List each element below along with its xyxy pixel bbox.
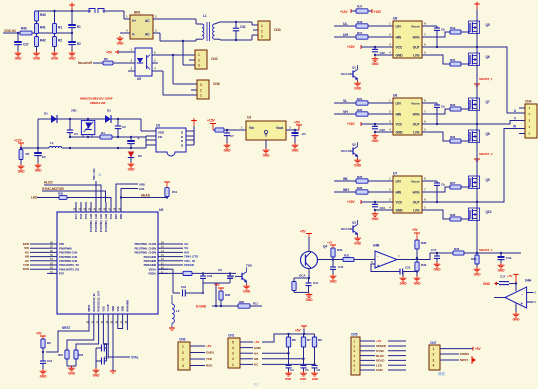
svg-text:U3: U3 bbox=[247, 116, 251, 120]
wire bbox=[334, 191, 356, 193]
svg-text:GND: GND bbox=[254, 346, 261, 350]
wire inputs bbox=[527, 292, 534, 294]
svg-text:CN3: CN3 bbox=[274, 28, 281, 32]
mcu top pins bbox=[75, 202, 77, 212]
power +5V bbox=[472, 347, 474, 351]
svg-text:U5: U5 bbox=[137, 77, 141, 81]
wire bbox=[113, 62, 135, 64]
svg-text:+15V: +15V bbox=[347, 122, 355, 126]
wire bbox=[36, 21, 38, 24]
svg-text:CN5: CN5 bbox=[351, 333, 358, 337]
wire bbox=[42, 348, 44, 361]
svg-text:C7: C7 bbox=[230, 134, 234, 138]
wire bbox=[240, 347, 253, 349]
wire bbox=[360, 340, 375, 342]
wire vertical to CN8 bbox=[172, 55, 174, 84]
wire OUT bbox=[422, 46, 477, 48]
svg-text:PC3/TIM4_CH2: PC3/TIM4_CH2 bbox=[94, 213, 98, 232]
svg-text:E4: E4 bbox=[302, 132, 306, 136]
ground bbox=[288, 371, 290, 373]
capacitor Cb bbox=[436, 103, 438, 105]
capacitor E4 bbox=[294, 130, 296, 132]
svg-text:AC: AC bbox=[145, 19, 150, 23]
svg-text:C17: C17 bbox=[431, 248, 437, 252]
power +15V bbox=[371, 9, 373, 13]
ground bbox=[500, 263, 502, 265]
ground bbox=[17, 51, 19, 53]
svg-text:C4: C4 bbox=[290, 368, 294, 372]
svg-text:GND: GND bbox=[474, 273, 482, 277]
wire bbox=[354, 259, 375, 261]
wire bbox=[67, 198, 111, 203]
svg-text:4: 4 bbox=[182, 364, 184, 368]
wire rail A bbox=[57, 118, 141, 120]
svg-text:+5V: +5V bbox=[36, 332, 42, 336]
svg-text:GND: GND bbox=[69, 57, 77, 61]
svg-text:Q9: Q9 bbox=[486, 178, 490, 182]
capacitor Cb bbox=[436, 26, 438, 28]
resistor R4 bbox=[100, 135, 112, 139]
ground bbox=[357, 158, 359, 160]
svg-text:C11: C11 bbox=[313, 281, 319, 285]
wire VDD bbox=[112, 324, 114, 371]
capacitor E1 bbox=[68, 24, 76, 26]
svg-text:OCA: OCA bbox=[299, 274, 306, 278]
svg-text:OUT: OUT bbox=[413, 200, 420, 204]
svg-text:Vboot: Vboot bbox=[411, 101, 419, 105]
svg-text:R41: R41 bbox=[40, 26, 46, 30]
capacitor C31 bbox=[235, 22, 237, 28]
inductor L2 bbox=[49, 146, 62, 148]
wire bbox=[251, 22, 253, 25]
wire bbox=[334, 113, 356, 115]
svg-text:PC4/TIM4_CH3: PC4/TIM4_CH3 bbox=[89, 213, 93, 232]
wire bbox=[375, 209, 393, 211]
wire bbox=[158, 256, 168, 258]
svg-text:GND: GND bbox=[15, 57, 23, 61]
wire OUT bbox=[422, 201, 477, 203]
wire U3 out bbox=[286, 129, 299, 131]
svg-text:GND: GND bbox=[372, 217, 380, 221]
resistor R1 bbox=[53, 24, 57, 34]
resistor R2 bbox=[53, 37, 57, 47]
wire to U1 VDD bbox=[140, 119, 142, 131]
svg-text:R27: R27 bbox=[450, 181, 456, 185]
ground bbox=[42, 369, 44, 371]
svg-text:HVG: HVG bbox=[413, 112, 420, 116]
wire gnd stem bbox=[515, 303, 517, 312]
svg-text:+5V: +5V bbox=[412, 228, 418, 232]
svg-text:VH: VH bbox=[343, 110, 348, 114]
wire phase U bbox=[477, 47, 525, 113]
capacitor C5 bbox=[301, 365, 307, 367]
svg-text:Vboot: Vboot bbox=[411, 179, 419, 183]
wire bbox=[515, 284, 517, 292]
mosfet Q8 bbox=[469, 130, 480, 143]
wire bbox=[240, 341, 253, 343]
wire bbox=[121, 197, 167, 199]
capacitor E3 bbox=[37, 148, 39, 152]
wire bbox=[461, 108, 470, 110]
ground bbox=[374, 57, 376, 59]
svg-text:+5V: +5V bbox=[294, 120, 301, 124]
capacitor C23 bbox=[374, 124, 376, 126]
wire bbox=[368, 10, 372, 12]
svg-text:R5: R5 bbox=[104, 57, 108, 61]
wire bbox=[360, 345, 375, 347]
svg-text:PA2/OSC32_OUT: PA2/OSC32_OUT bbox=[97, 290, 101, 311]
wire U2 left pins bbox=[146, 135, 156, 137]
svg-text:R35: R35 bbox=[58, 191, 64, 195]
svg-text:C31: C31 bbox=[240, 25, 246, 29]
svg-text:CN8: CN8 bbox=[213, 82, 220, 86]
svg-text:VDD: VDD bbox=[158, 130, 165, 134]
wire bbox=[461, 218, 470, 220]
resistor R26 bbox=[356, 190, 368, 194]
svg-text:R4: R4 bbox=[101, 131, 105, 135]
power flag analog bbox=[171, 323, 173, 328]
wire bbox=[192, 272, 236, 274]
svg-text:GND: GND bbox=[396, 208, 404, 212]
wire pin3 bbox=[128, 70, 135, 72]
wire stub CN8 pin2 bbox=[191, 89, 197, 91]
svg-text:V-: V- bbox=[132, 33, 135, 37]
svg-text:R30: R30 bbox=[337, 248, 343, 252]
ground bbox=[357, 81, 359, 83]
svg-text:Q8: Q8 bbox=[486, 132, 490, 136]
wire bbox=[360, 350, 375, 352]
inductor L2b bbox=[171, 295, 173, 304]
svg-text:C19: C19 bbox=[506, 256, 512, 260]
svg-text:R10: R10 bbox=[58, 353, 64, 357]
svg-text:+15V: +15V bbox=[347, 200, 355, 204]
ground bbox=[265, 148, 267, 150]
svg-text:C2: C2 bbox=[122, 125, 126, 129]
svg-text:BLDC: BLDC bbox=[376, 354, 385, 358]
capacitor E2 bbox=[68, 41, 76, 43]
svg-text:SHUNT_1: SHUNT_1 bbox=[479, 77, 493, 81]
svg-text:GND: GND bbox=[434, 268, 442, 272]
wire bbox=[54, 11, 56, 24]
wire bbox=[158, 247, 168, 249]
wire bbox=[440, 359, 459, 361]
svg-text:GND: GND bbox=[285, 377, 291, 381]
capacitor C14 bbox=[105, 347, 107, 349]
svg-text:GND: GND bbox=[483, 282, 491, 286]
svg-text:UH: UH bbox=[343, 33, 348, 37]
wire bbox=[368, 180, 393, 182]
power +5V bbox=[330, 244, 336, 246]
resistor R43 bbox=[20, 31, 32, 35]
svg-text:R28: R28 bbox=[450, 213, 456, 217]
svg-text:1: 1 bbox=[198, 53, 200, 57]
wire HB bbox=[262, 358, 304, 360]
mosfet Q5 bbox=[469, 21, 480, 34]
resistor R40 bbox=[35, 11, 39, 21]
wire bbox=[66, 359, 68, 366]
ground bbox=[374, 212, 376, 214]
capacitor C13 bbox=[40, 360, 46, 362]
svg-text:LIN: LIN bbox=[396, 24, 402, 28]
svg-text:4: 4 bbox=[433, 363, 435, 367]
resistor R22 bbox=[356, 112, 368, 116]
wire VDDA row bbox=[158, 272, 183, 274]
svg-text:Q10: Q10 bbox=[486, 210, 492, 214]
wire bbox=[158, 243, 168, 245]
transistor Q4 bbox=[301, 252, 318, 269]
wire bbox=[334, 102, 356, 104]
svg-text:LVG: LVG bbox=[413, 208, 420, 212]
capacitor C24 bbox=[374, 202, 376, 204]
svg-text:VCC: VCC bbox=[396, 45, 403, 49]
svg-text:3: 3 bbox=[261, 35, 263, 39]
ground bbox=[71, 51, 73, 53]
diode D3 bbox=[99, 118, 105, 120]
svg-text:HIN: HIN bbox=[396, 190, 402, 194]
wire emitter bbox=[308, 269, 310, 279]
svg-text:LIN: LIN bbox=[396, 101, 402, 105]
wire pin ERR bbox=[47, 243, 57, 245]
svg-text:U4B: U4B bbox=[373, 244, 380, 248]
power +VDC bbox=[69, 4, 75, 6]
svg-text:SPEED: SPEED bbox=[184, 263, 195, 267]
svg-text:WL: WL bbox=[343, 177, 349, 181]
capacitor C22 bbox=[374, 47, 376, 49]
wire bbox=[46, 324, 89, 352]
svg-text:TXB: TXB bbox=[246, 263, 253, 267]
resistor R23 bbox=[450, 107, 461, 111]
svg-text:GND: GND bbox=[18, 170, 26, 174]
ground bbox=[37, 163, 39, 165]
wire pin5 bbox=[152, 62, 158, 64]
svg-text:C14: C14 bbox=[104, 342, 110, 346]
svg-text:GND: GND bbox=[396, 130, 404, 134]
resistor R24 bbox=[450, 139, 461, 143]
resistor R5b bbox=[19, 150, 23, 160]
svg-text:fan-on/off: fan-on/off bbox=[78, 61, 93, 65]
wire bbox=[71, 11, 73, 24]
wire Vboot bbox=[422, 180, 437, 182]
wire PA4 bbox=[126, 324, 128, 330]
wire pin4 bbox=[152, 70, 163, 72]
capacitor C12 bbox=[332, 260, 334, 268]
wire bbox=[93, 62, 103, 64]
wire OSC2 bbox=[76, 324, 99, 350]
wire pin4 bbox=[120, 32, 130, 34]
wire riser PC4 bbox=[95, 181, 97, 202]
svg-text:GND: GND bbox=[513, 318, 521, 322]
svg-text:PC5: PC5 bbox=[84, 213, 88, 219]
capacitor C7 bbox=[226, 130, 228, 133]
svg-text:C22: C22 bbox=[380, 51, 386, 55]
ground bbox=[332, 274, 334, 276]
svg-text:+: + bbox=[138, 137, 140, 141]
svg-text:L1: L1 bbox=[203, 14, 207, 18]
svg-text:HVG: HVG bbox=[413, 35, 420, 39]
wire bbox=[360, 369, 375, 371]
ground bbox=[36, 51, 38, 53]
svg-text:LVG: LVG bbox=[413, 53, 420, 57]
svg-text:3: 3 bbox=[198, 64, 200, 68]
svg-text:Q2: Q2 bbox=[352, 142, 356, 146]
resistor R37 bbox=[356, 9, 368, 13]
resistor R36 bbox=[219, 291, 223, 300]
ground bbox=[119, 36, 121, 38]
power flag shunt bbox=[474, 83, 480, 85]
svg-text:+5V: +5V bbox=[106, 50, 113, 54]
svg-text:WH: WH bbox=[343, 188, 349, 192]
svg-text:RXD: RXD bbox=[23, 267, 30, 271]
svg-text:VSS: VSS bbox=[101, 306, 105, 311]
svg-text:1: 1 bbox=[261, 24, 263, 28]
resistor R18 bbox=[356, 24, 368, 28]
svg-text:D-GND: D-GND bbox=[196, 305, 207, 309]
svg-text:C21: C21 bbox=[405, 265, 411, 269]
wire HVG bbox=[422, 109, 450, 114]
svg-text:R6: R6 bbox=[292, 338, 296, 342]
svg-text:TIM4_CH0: TIM4_CH0 bbox=[93, 168, 96, 180]
wire bbox=[476, 264, 478, 267]
wire +5V rail bbox=[262, 334, 315, 342]
wire bbox=[368, 191, 393, 193]
svg-text:D2: D2 bbox=[138, 154, 142, 158]
svg-text:R1: R1 bbox=[58, 26, 62, 30]
svg-text:GND: GND bbox=[498, 269, 506, 273]
ground bbox=[130, 162, 132, 164]
svg-text:GND: GND bbox=[300, 377, 306, 381]
svg-text:GND: GND bbox=[117, 42, 125, 46]
svg-text:GND: GND bbox=[354, 87, 362, 91]
ground bbox=[314, 371, 316, 373]
wire stub CN4 pin1 bbox=[519, 107, 525, 109]
wire rail 12V bbox=[21, 147, 49, 149]
wire bbox=[130, 144, 132, 148]
mosfet Q9 bbox=[469, 176, 480, 189]
wire bbox=[334, 180, 356, 182]
ground bbox=[416, 276, 418, 278]
wire mid node bbox=[476, 201, 478, 203]
ground bbox=[95, 368, 97, 370]
wire stub CN4 pin5 bbox=[519, 133, 525, 135]
svg-text:HVG: HVG bbox=[413, 190, 420, 194]
fuse SW1 bbox=[89, 9, 104, 14]
resistor R42 bbox=[35, 37, 39, 47]
svg-text:微软: 微软 bbox=[437, 371, 446, 376]
svg-text:OCA: OCA bbox=[341, 227, 348, 231]
wire pin RXD bbox=[47, 268, 57, 270]
svg-text:Cb: Cb bbox=[441, 104, 445, 108]
wire bbox=[240, 363, 253, 365]
svg-text:GND: GND bbox=[306, 298, 314, 302]
svg-text:ZM1: ZM1 bbox=[71, 109, 77, 113]
wire bbox=[32, 32, 72, 34]
ground U4A bbox=[515, 312, 517, 314]
resistor R8 bbox=[314, 334, 316, 337]
svg-text:U4A: U4A bbox=[525, 279, 532, 283]
svg-text:GND: GND bbox=[354, 164, 362, 168]
wire LVG bbox=[422, 210, 450, 219]
ground bbox=[54, 51, 56, 53]
wire bbox=[62, 147, 70, 149]
wire bbox=[213, 129, 215, 131]
svg-text:OCA: OCA bbox=[228, 275, 235, 279]
svg-text:R5: R5 bbox=[26, 152, 30, 156]
svg-text:U2: U2 bbox=[156, 124, 160, 128]
wire bbox=[440, 353, 459, 355]
svg-text:GND: GND bbox=[376, 368, 383, 372]
wire Vboot bbox=[422, 102, 437, 104]
wire bbox=[402, 272, 404, 277]
svg-text:+5V: +5V bbox=[214, 283, 220, 287]
resistor R35 bbox=[59, 196, 67, 200]
wire bbox=[158, 264, 168, 266]
mosfet Q7 bbox=[469, 98, 480, 111]
svg-text:E3: E3 bbox=[42, 155, 46, 159]
bridge rectifier BR1 bbox=[130, 15, 153, 39]
svg-text:GND1: GND1 bbox=[206, 351, 215, 355]
resistor R27 bbox=[450, 185, 461, 189]
svg-text:3: 3 bbox=[182, 357, 184, 361]
wire to CN2 bbox=[182, 41, 184, 65]
svg-text:+12V: +12V bbox=[340, 10, 348, 14]
optocoupler U5 bbox=[135, 48, 152, 76]
svg-text:OUT: OUT bbox=[413, 45, 420, 49]
wire bbox=[368, 36, 393, 38]
svg-text:HEAD: HEAD bbox=[376, 359, 385, 363]
resistor R31 bbox=[343, 257, 354, 261]
wire bbox=[224, 129, 246, 131]
svg-text:Vboot: Vboot bbox=[411, 24, 419, 28]
svg-text:R17: R17 bbox=[357, 31, 363, 35]
svg-text:VSS: VSS bbox=[116, 306, 120, 311]
wire bbox=[158, 260, 168, 262]
svg-text:1: 1 bbox=[182, 344, 184, 348]
svg-text:PC1/TIM4_CH0: PC1/TIM4_CH0 bbox=[104, 213, 108, 232]
capacitor C15 bbox=[105, 360, 107, 362]
svg-text:D3: D3 bbox=[107, 109, 111, 113]
resistor R16 bbox=[74, 350, 78, 359]
wire mid node bbox=[476, 46, 478, 48]
wire AC top bbox=[153, 18, 196, 20]
svg-text:GND: GND bbox=[51, 57, 59, 61]
wire FET bus bbox=[476, 9, 478, 253]
wire rail B bbox=[70, 136, 100, 138]
wire bbox=[240, 352, 253, 354]
wire base bbox=[318, 259, 344, 261]
wire bbox=[190, 365, 205, 367]
wire bbox=[375, 54, 393, 56]
wire VSS caps bbox=[103, 324, 106, 348]
svg-text:VDDA: VDDA bbox=[148, 272, 157, 276]
capacitor C6 bbox=[312, 365, 318, 367]
svg-text:R22: R22 bbox=[239, 300, 245, 304]
wire bbox=[158, 251, 168, 253]
capacitor C19 bbox=[500, 253, 502, 256]
svg-text:NRST: NRST bbox=[460, 358, 468, 362]
svg-text:SHUNT_2: SHUNT_2 bbox=[479, 152, 493, 156]
svg-text:Cb: Cb bbox=[441, 27, 445, 31]
svg-text:HIN: HIN bbox=[396, 35, 402, 39]
svg-text:R21: R21 bbox=[357, 97, 363, 101]
wire opamp out bbox=[397, 253, 437, 260]
wire HC bbox=[262, 363, 315, 365]
svg-text:D1: D1 bbox=[44, 112, 48, 116]
wire U3 gnd bbox=[265, 140, 267, 148]
wire bbox=[461, 140, 470, 142]
svg-text:Q3: Q3 bbox=[352, 220, 356, 224]
svg-text:VDC IN: VDC IN bbox=[4, 29, 16, 33]
wire opamp+ ref bbox=[371, 264, 400, 272]
